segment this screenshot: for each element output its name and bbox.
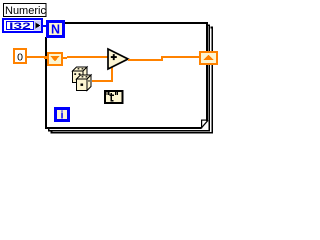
- front die dots: [81, 76, 90, 86]
- right shift register: [200, 52, 217, 64]
- front die side face: [87, 75, 91, 91]
- add function: [108, 49, 128, 69]
- for loop border sheet1 right: [206, 22, 208, 121]
- left shift register: [44, 53, 67, 65]
- wire shift register to add: [67, 56, 109, 58]
- wire 0 to left shift register: [27, 56, 48, 58]
- back die front face: [73, 71, 84, 83]
- front die front face: [77, 79, 88, 91]
- back die dots: [74, 68, 83, 75]
- for loop border sheet1 bottom: [47, 127, 201, 129]
- terminal I32 numeric control: [3, 19, 42, 32]
- for loop border sheet1 top: [60, 22, 208, 24]
- string constant t: [105, 91, 123, 103]
- front die top face: [77, 75, 92, 79]
- svg-text:Numeric: Numeric: [5, 5, 46, 17]
- N loop count terminal: [48, 22, 64, 37]
- svg-text:N: N: [51, 22, 60, 36]
- for loop border sheet1 left: [45, 37, 47, 129]
- back die side face: [83, 67, 87, 83]
- wire blue terminal to N: [42, 25, 48, 27]
- for loop border sheet3 (back page): [52, 28, 213, 133]
- svg-text:i: i: [60, 110, 63, 122]
- folded corner flap: [201, 120, 208, 129]
- wire add output: [128, 59, 163, 61]
- label Numeric: [4, 4, 47, 17]
- back die top face: [73, 67, 88, 71]
- svg-text:0: 0: [17, 51, 23, 63]
- numeric constant 0: [14, 49, 26, 63]
- for loop border sheet2 (middle page): [49, 25, 210, 131]
- wire dice to add (horizontal): [92, 80, 113, 82]
- dice random number icon: [73, 67, 92, 91]
- i iteration terminal: [56, 109, 69, 122]
- svg-text:I32: I32: [9, 21, 31, 32]
- wire dice to add (vertical): [111, 67, 113, 82]
